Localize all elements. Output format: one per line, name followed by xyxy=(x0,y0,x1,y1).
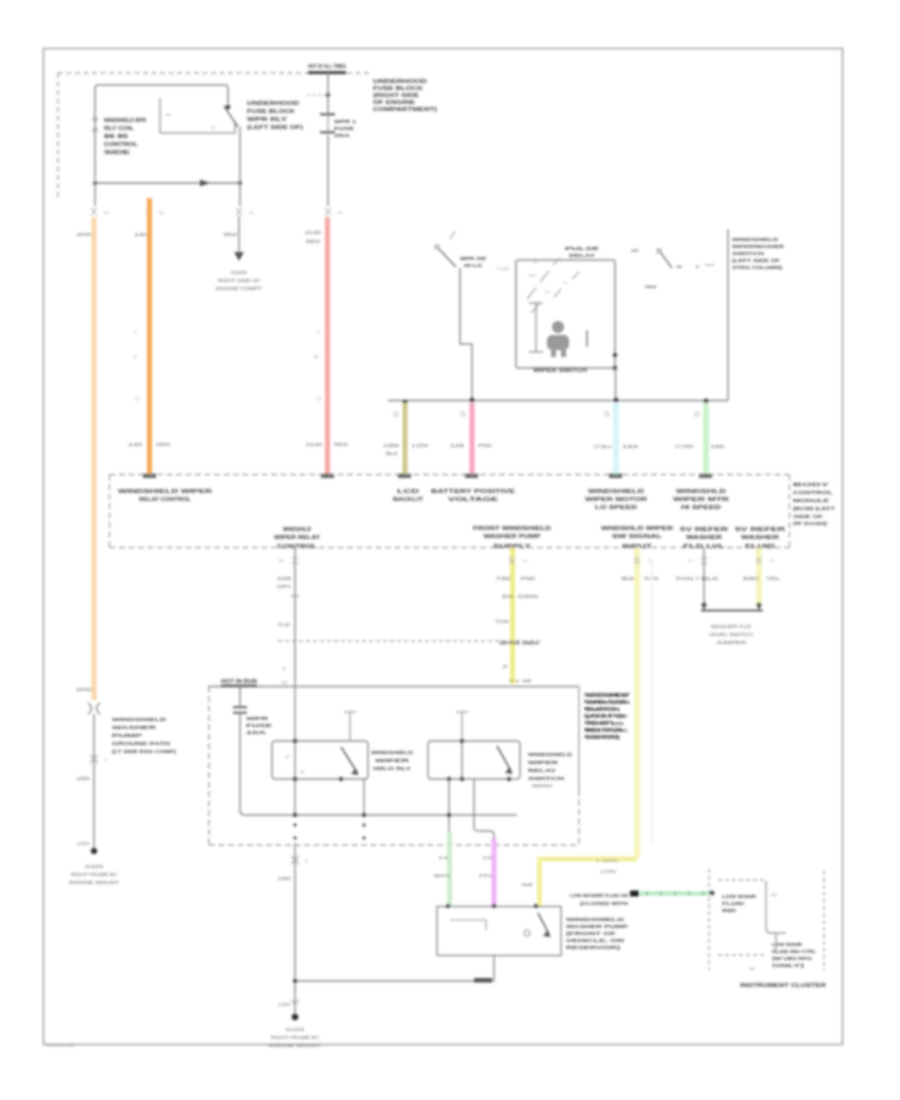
wire labels below band box xyxy=(277,576,781,624)
junction dots on bus xyxy=(470,398,475,403)
svg-text:WINDSHIELD: WINDSHIELD xyxy=(732,237,779,242)
svg-text:C2: C2 xyxy=(282,680,288,685)
svg-text:ORN: ORN xyxy=(156,442,170,447)
svg-text:WASH: WASH xyxy=(645,285,657,289)
wire main bus horizontal xyxy=(388,400,728,402)
svg-text:HI-LO: HI-LO xyxy=(464,263,483,268)
svg-text:WASHER PUMP: WASHER PUMP xyxy=(566,924,628,929)
svg-text:WIPER MTR: WIPER MTR xyxy=(673,497,729,503)
wire S1 to bus xyxy=(460,268,472,400)
svg-text:JUMPER: JUMPER xyxy=(716,640,746,645)
svg-text:G102: G102 xyxy=(231,270,248,275)
svg-text:OFF: OFF xyxy=(631,249,639,253)
svg-text:UNDERHOOD: UNDERHOOD xyxy=(247,101,300,107)
lower box right edge xyxy=(578,687,580,791)
svg-text:E6: E6 xyxy=(278,559,283,563)
svg-text:PNK: PNK xyxy=(521,576,536,581)
washer switch label block xyxy=(732,237,785,270)
svg-text:TAN: TAN xyxy=(495,619,509,624)
svg-text:14: 14 xyxy=(438,855,450,860)
svg-text:302: 302 xyxy=(223,232,238,237)
svg-text:(FRONT OF: (FRONT OF xyxy=(566,931,617,936)
svg-text:PUMP: PUMP xyxy=(112,733,142,738)
svg-text:G103: G103 xyxy=(85,864,104,869)
svg-text:739: 739 xyxy=(496,576,512,581)
relay K2 label xyxy=(371,750,413,771)
svg-text:WIPER MOTOR: WIPER MOTOR xyxy=(585,497,647,503)
svg-text:A: A xyxy=(104,758,107,762)
svg-text:M: M xyxy=(534,260,537,264)
svg-text:FUSE: FUSE xyxy=(246,723,272,728)
svg-text:19: 19 xyxy=(482,855,494,860)
svg-text:2140: 2140 xyxy=(306,442,323,447)
svg-text:LOW: LOW xyxy=(500,267,509,271)
svg-text:LT GRN: LT GRN xyxy=(675,444,693,449)
instrument cluster dashed box xyxy=(708,869,710,970)
svg-text:2: 2 xyxy=(317,329,320,334)
relay K2 input tap xyxy=(344,712,356,741)
svg-text:BLK: BLK xyxy=(386,451,398,456)
svg-text:228: 228 xyxy=(277,576,292,581)
switch S2 washer xyxy=(657,249,661,253)
svg-text:(LEFT END: (LEFT END xyxy=(584,713,624,718)
relay K1 coil pins xyxy=(93,117,97,121)
svg-text:(W/ UB3 RPO: (W/ UB3 RPO xyxy=(772,956,813,961)
U1 figure glyph xyxy=(552,321,564,333)
svg-text:SP205 X50A: SP205 X50A xyxy=(499,641,540,646)
svg-text:CONTROL: CONTROL xyxy=(277,544,318,550)
dark caps entering band box xyxy=(143,474,712,479)
svg-text:C1 48: C1 48 xyxy=(509,678,533,683)
wire washer switch drop xyxy=(727,229,729,400)
cluster indicator circuit xyxy=(766,881,786,933)
svg-text:ON: ON xyxy=(676,265,682,269)
wire orange 140 xyxy=(147,198,152,475)
wire pale yellow long xyxy=(634,548,640,858)
svg-text:(RIGHT SIDE: (RIGHT SIDE xyxy=(373,93,420,99)
wire fuse F1 vertical xyxy=(327,73,329,206)
svg-text:WINDSHIELD: WINDSHIELD xyxy=(588,489,644,495)
svg-text:CONTROL: CONTROL xyxy=(104,142,138,148)
svg-text:WPR RLY: WPR RLY xyxy=(247,117,288,123)
svg-text:ENGINE MOUNT: ENGINE MOUNT xyxy=(69,880,120,885)
svg-text:LCD: LCD xyxy=(397,489,419,495)
continuation dots x295 x364 xyxy=(293,823,296,826)
svg-text:MODULE: MODULE xyxy=(793,498,829,503)
svg-text:2: 2 xyxy=(283,666,286,671)
svg-text:128: 128 xyxy=(450,443,465,448)
wire ground stub G102 xyxy=(238,216,240,252)
underhood fuse block label xyxy=(247,101,303,131)
labels along orange wire xyxy=(134,329,140,401)
svg-text:BACKLIT: BACKLIT xyxy=(393,497,424,503)
U1 bracket xyxy=(529,303,543,352)
svg-text:ONLY): ONLY) xyxy=(772,963,805,968)
wire relay output horizontal xyxy=(95,182,240,184)
svg-text:WINDSHLD: WINDSHLD xyxy=(676,489,726,495)
svg-text:FLUID IND CTRL: FLUID IND CTRL xyxy=(772,949,817,954)
svg-text:(CLOSED WITH: (CLOSED WITH xyxy=(580,901,628,906)
wire cyan 194 xyxy=(613,403,619,475)
wire peach ORN 2040 long xyxy=(92,217,97,700)
svg-text:2040: 2040 xyxy=(77,232,93,237)
wire relay 87 drop xyxy=(239,127,241,206)
wire grey x704 short xyxy=(703,548,705,604)
svg-text:HOT IN RUN: HOT IN RUN xyxy=(221,679,257,685)
svg-text:140: 140 xyxy=(128,442,143,447)
band box row2 labels xyxy=(274,526,785,550)
wire left ground drop xyxy=(93,714,95,850)
connector pins row y211 xyxy=(91,208,331,215)
shorting bar label xyxy=(709,624,753,645)
svg-text:590: 590 xyxy=(743,576,761,581)
svg-text:WIPER: WIPER xyxy=(528,760,560,765)
wire pale yellow x759 short xyxy=(756,548,762,604)
svg-text:LGN: LGN xyxy=(412,443,428,448)
svg-text:ENGINE COMPT: ENGINE COMPT xyxy=(216,286,263,291)
relay K1 coil label block xyxy=(104,118,146,156)
washer pump box xyxy=(437,907,561,956)
fuse F2 drop xyxy=(239,687,241,707)
wire branch y95 xyxy=(307,94,328,96)
switch S1 wiper mode stalk xyxy=(435,245,439,249)
svg-text:BLOCK: BLOCK xyxy=(584,706,620,711)
relay K3 input tap xyxy=(456,712,468,741)
svg-text:C2: C2 xyxy=(278,622,291,627)
pin circles on drops xyxy=(394,412,699,416)
wire green striped to cluster xyxy=(640,891,709,896)
svg-text:PANEL FUSE: PANEL FUSE xyxy=(584,699,626,704)
svg-text:RLY COIL: RLY COIL xyxy=(104,126,134,132)
svg-text:WINDSHIELD: WINDSHIELD xyxy=(528,752,572,757)
connector pins below band box xyxy=(292,557,762,564)
shorting bar xyxy=(701,605,763,611)
U1 top label PULSE xyxy=(565,246,599,258)
svg-text:WINDSHIELD WIPER: WINDSHIELD WIPER xyxy=(118,489,212,495)
svg-text:18: 18 xyxy=(503,664,508,669)
svg-text:C1: C1 xyxy=(749,966,755,971)
svg-text:140: 140 xyxy=(134,232,149,237)
fuse F1 label xyxy=(334,119,357,138)
lower box left edge dashed xyxy=(208,687,210,846)
svg-text:RELAY: RELAY xyxy=(528,768,556,773)
svg-text:C1: C1 xyxy=(317,396,323,401)
svg-text:150: 150 xyxy=(278,1002,292,1007)
svg-text:BODY: BODY xyxy=(793,482,829,487)
svg-text:COVER): COVER) xyxy=(584,734,619,739)
pump output drop xyxy=(493,955,495,981)
svg-text:B4: B4 xyxy=(159,211,164,215)
svg-text:5V REFER: 5V REFER xyxy=(680,527,728,533)
svg-text:UNDERHOOD: UNDERHOOD xyxy=(373,79,428,85)
svg-text:150: 150 xyxy=(278,876,292,881)
underhood fuse block right label xyxy=(373,79,438,113)
svg-text:PULSE: PULSE xyxy=(565,246,599,251)
svg-text:SIDE: SIDE xyxy=(104,150,131,156)
relay K2 hi-lo box xyxy=(272,741,368,779)
svg-text:B: B xyxy=(134,354,137,359)
svg-text:1365: 1365 xyxy=(383,443,400,448)
svg-text:1290: 1290 xyxy=(600,869,617,874)
wire pump ground horizontal xyxy=(295,980,494,982)
faint guide line xyxy=(651,560,653,845)
svg-text:VOLTAGE: VOLTAGE xyxy=(448,497,498,503)
svg-text:WIPER SWITCH: WIPER SWITCH xyxy=(533,368,587,374)
wire green brn 14 xyxy=(447,832,452,906)
svg-text:92: 92 xyxy=(621,576,637,581)
svg-text:SWITCH: SWITCH xyxy=(528,776,564,781)
wiper switch box U1 xyxy=(516,260,615,368)
node HOT AT ALL TIMES xyxy=(308,64,346,74)
svg-text:WINDSHIELD: WINDSHIELD xyxy=(371,750,413,755)
svg-text:96: 96 xyxy=(521,882,535,887)
band box row1 labels xyxy=(118,489,729,511)
svg-text:WINDSHIELD: WINDSHIELD xyxy=(112,717,166,722)
svg-text:DELAY: DELAY xyxy=(569,253,595,258)
wire fuse to bus xyxy=(240,714,245,815)
svg-text:VEHICLE, ON: VEHICLE, ON xyxy=(566,938,624,943)
svg-text:10A: 10A xyxy=(246,730,268,735)
svg-text:B: B xyxy=(305,859,308,863)
svg-text:25A: 25A xyxy=(334,133,351,138)
svg-text:COMPARTMENT): COMPARTMENT) xyxy=(373,107,438,113)
wire U1 right edge drop to bus xyxy=(615,368,617,400)
relay K1 contact frame xyxy=(160,98,235,133)
x295 extra labels and dashed connector line xyxy=(291,595,299,597)
wire coil drop xyxy=(94,183,96,206)
svg-text:(LEFT SIDE OF: (LEFT SIDE OF xyxy=(732,258,780,263)
svg-text:WNDSHLD WIPER: WNDSHLD WIPER xyxy=(601,526,673,532)
svg-text:SWITCH: SWITCH xyxy=(732,251,764,256)
svg-text:IND: IND xyxy=(722,908,736,913)
svg-text:C1: C1 xyxy=(134,396,140,401)
svg-text:150: 150 xyxy=(77,776,91,781)
svg-text:FUSE BLOCK: FUSE BLOCK xyxy=(247,109,296,115)
svg-text:WNDSHLD: WNDSHLD xyxy=(283,527,311,533)
BCM band box dashed xyxy=(110,475,790,548)
drop wire labels xyxy=(383,443,725,456)
svg-text:86: 86 xyxy=(285,755,289,759)
text block left of pale yellow wire xyxy=(586,693,631,740)
wire lower bus xyxy=(245,814,517,816)
svg-text:BEHIND: BEHIND xyxy=(584,727,622,732)
svg-text:(LT SIDE ENG COMP): (LT SIDE ENG COMP) xyxy=(112,749,177,754)
labels along salmon wire xyxy=(314,329,323,401)
lower box top edge xyxy=(208,686,579,688)
svg-text:85: 85 xyxy=(300,770,304,774)
relay K3 coil line xyxy=(461,741,463,779)
svg-text:G103: G103 xyxy=(286,1027,305,1032)
svg-text:2: 2 xyxy=(134,329,137,334)
svg-text:RESERVOIR): RESERVOIR) xyxy=(566,945,621,950)
svg-text:L GRN: L GRN xyxy=(596,858,618,863)
svg-text:WASHER PUMP: WASHER PUMP xyxy=(484,534,542,540)
svg-text:GROUND PATH: GROUND PATH xyxy=(112,741,170,746)
svg-text:HI SPEED: HI SPEED xyxy=(681,505,721,511)
svg-text:WPR SW: WPR SW xyxy=(460,256,487,261)
svg-text:LT BLU: LT BLU xyxy=(594,444,612,449)
svg-text:SIDE OF: SIDE OF xyxy=(793,514,823,519)
band box right outside block xyxy=(793,482,835,526)
lower box bottom dashed xyxy=(209,844,579,846)
svg-text:OF ENGINE: OF ENGINE xyxy=(373,100,416,106)
wire K3 jog to magenta xyxy=(474,779,494,840)
arrow right on wire xyxy=(200,180,210,187)
relay K3 switch arm xyxy=(497,746,511,771)
svg-text:LO SPEED: LO SPEED xyxy=(595,505,637,511)
svg-text:PPL: PPL xyxy=(479,873,496,878)
svg-text:LOW WASHER FLUID SW: LOW WASHER FLUID SW xyxy=(570,893,629,898)
fuse F2 label xyxy=(246,716,272,735)
svg-text:OFF: OFF xyxy=(529,274,537,278)
left drop label block xyxy=(112,717,177,754)
fuse F2 symbol xyxy=(233,706,247,708)
svg-text:WIPER/WASHER: WIPER/WASHER xyxy=(732,244,785,249)
svg-text:WASHER: WASHER xyxy=(741,535,779,541)
svg-text:WIPER: WIPER xyxy=(375,758,411,763)
ground G103 left dot xyxy=(91,848,97,854)
svg-text:150: 150 xyxy=(77,841,91,846)
svg-text:F8: F8 xyxy=(770,559,774,563)
svg-text:YEL: YEL xyxy=(766,576,781,581)
svg-text:RIGHT FRAME BY: RIGHT FRAME BY xyxy=(271,1035,319,1040)
relay K1 switch arm xyxy=(224,106,238,127)
svg-text:FLUID: FLUID xyxy=(722,901,744,906)
relay K3 box xyxy=(428,741,520,779)
svg-text:LOW WSHR: LOW WSHR xyxy=(722,894,756,899)
svg-text:FUSE: FUSE xyxy=(334,126,354,131)
svg-text:INSTRUMENT CLUSTER: INSTRUMENT CLUSTER xyxy=(740,983,826,989)
svg-text:WINDSHIELD: WINDSHIELD xyxy=(566,917,624,922)
svg-text:STRG COLUMN): STRG COLUMN) xyxy=(732,265,783,270)
wire dashed left drop xyxy=(57,73,59,200)
svg-text:CONTROL: CONTROL xyxy=(793,490,833,495)
U1 output junctions xyxy=(613,353,618,358)
svg-text:A1: A1 xyxy=(249,211,254,215)
svg-text:5V REFER: 5V REFER xyxy=(735,527,785,533)
wire yellow L horizontal xyxy=(540,857,638,862)
svg-text:LEVEL SWITCH: LEVEL SWITCH xyxy=(709,632,753,637)
relay K2 coil line xyxy=(294,687,296,815)
svg-text:WASHER: WASHER xyxy=(686,535,722,541)
ground G103 right dot xyxy=(292,1014,299,1021)
svg-text:HI/LO RLY: HI/LO RLY xyxy=(373,766,411,771)
pump motor circle xyxy=(524,930,530,936)
svg-text:I/P DASH): I/P DASH) xyxy=(793,521,828,526)
U1 side dash xyxy=(586,330,588,347)
svg-text:F4: F4 xyxy=(523,559,527,563)
wire salmon 2140 xyxy=(325,217,330,475)
wire magenta ppl xyxy=(492,838,497,906)
svg-text:DK GRN: DK GRN xyxy=(502,594,538,599)
svg-text:194: 194 xyxy=(622,444,640,449)
svg-text:LO: LO xyxy=(545,290,550,294)
ground G102 label xyxy=(216,270,263,291)
wire K3 output to green xyxy=(448,779,450,833)
node B+ dashed feed line xyxy=(58,72,370,74)
svg-text:BATTERY POSITIVE: BATTERY POSITIVE xyxy=(431,489,515,495)
svg-text:WASHER FLD: WASHER FLD xyxy=(711,624,751,629)
svg-text:85: 85 xyxy=(166,112,171,117)
wire light green 196 xyxy=(703,403,709,475)
svg-text:(LEFT SIDE OF): (LEFT SIDE OF) xyxy=(247,125,303,131)
svg-text:HI: HI xyxy=(563,281,567,285)
svg-text:FRONT WINDSHIELD: FRONT WINDSHIELD xyxy=(473,526,551,532)
inline connector C100 xyxy=(88,703,100,714)
svg-text:WASHER: WASHER xyxy=(112,725,158,730)
svg-text:PNK: PNK xyxy=(478,443,492,448)
wire id labels y235 xyxy=(77,230,323,244)
svg-text:SW SIGNAL: SW SIGNAL xyxy=(612,534,663,540)
wire right ground drop x295 xyxy=(294,843,296,1017)
wire yellow L vertical xyxy=(537,857,542,906)
svg-text:RED: RED xyxy=(334,442,348,447)
U1 rotary dashes xyxy=(527,258,579,313)
relay K1 wiper relay outline xyxy=(95,85,228,180)
relay K1 pin 30 junction xyxy=(226,105,231,110)
svg-text:LOW WSHR: LOW WSHR xyxy=(772,942,802,947)
svg-text:F7: F7 xyxy=(689,559,693,563)
wire pink 128 xyxy=(470,403,475,475)
svg-text:RED: RED xyxy=(306,239,320,244)
svg-text:WPR: WPR xyxy=(246,716,270,721)
labels below lower box xyxy=(434,855,496,878)
svg-text:HOT AT ALL TIMES: HOT AT ALL TIMES xyxy=(308,64,346,70)
svg-text:D2: D2 xyxy=(338,211,343,215)
svg-text:D: D xyxy=(696,265,699,269)
switch S1 label xyxy=(460,256,487,268)
svg-text:WINDSHIELD WPR: WINDSHIELD WPR xyxy=(104,118,146,124)
wire olive 1365 xyxy=(403,403,408,475)
svg-text:TAN / BLK: TAN / BLK xyxy=(675,576,719,581)
svg-text:86 85: 86 85 xyxy=(104,134,128,140)
svg-text:RIGHT FRAME BY: RIGHT FRAME BY xyxy=(71,872,117,877)
wire grey x295 band to lower box xyxy=(294,548,296,686)
fuse F1 symbol xyxy=(320,113,335,116)
svg-text:(BCM) (LEFT: (BCM) (LEFT xyxy=(793,506,835,511)
svg-text:TAN: TAN xyxy=(644,576,659,581)
svg-text:WPR 1: WPR 1 xyxy=(334,119,357,124)
svg-text:B2: B2 xyxy=(314,354,320,359)
svg-text:124136: 124136 xyxy=(46,1043,76,1048)
svg-text:ENGINE MOUNT: ENGINE MOUNT xyxy=(269,1043,322,1048)
svg-text:INSTRUMENT: INSTRUMENT xyxy=(584,692,630,697)
relay K3 label xyxy=(528,752,572,781)
svg-text:WASH: WASH xyxy=(532,783,552,788)
svg-text:196: 196 xyxy=(710,444,725,449)
pump switch arm xyxy=(538,913,549,934)
svg-text:RELAY CONTROL: RELAY CONTROL xyxy=(139,497,192,503)
svg-text:FUSE BLOCK: FUSE BLOCK xyxy=(373,86,424,92)
svg-text:B3: B3 xyxy=(104,211,109,215)
svg-text:B10: B10 xyxy=(771,893,777,897)
relay K2 switch arm xyxy=(341,747,357,772)
svg-text:BRN: BRN xyxy=(434,873,450,878)
left drop pins/labels xyxy=(90,755,98,763)
wire yellow washer supply xyxy=(510,548,515,684)
svg-text:2140: 2140 xyxy=(305,230,322,235)
pump inner step xyxy=(450,920,486,930)
svg-text:OF I/P,: OF I/P, xyxy=(584,720,614,725)
svg-text:2040: 2040 xyxy=(76,687,93,692)
svg-text:RIGHT SIDE OF: RIGHT SIDE OF xyxy=(218,278,261,283)
relay K2 output xyxy=(363,779,365,815)
svg-text:GRY: GRY xyxy=(277,584,291,589)
I/P fuse block right label xyxy=(584,692,630,739)
shorting bar terminal dots xyxy=(702,603,707,608)
cluster labels xyxy=(722,894,756,913)
svg-text:87: 87 xyxy=(211,125,216,130)
